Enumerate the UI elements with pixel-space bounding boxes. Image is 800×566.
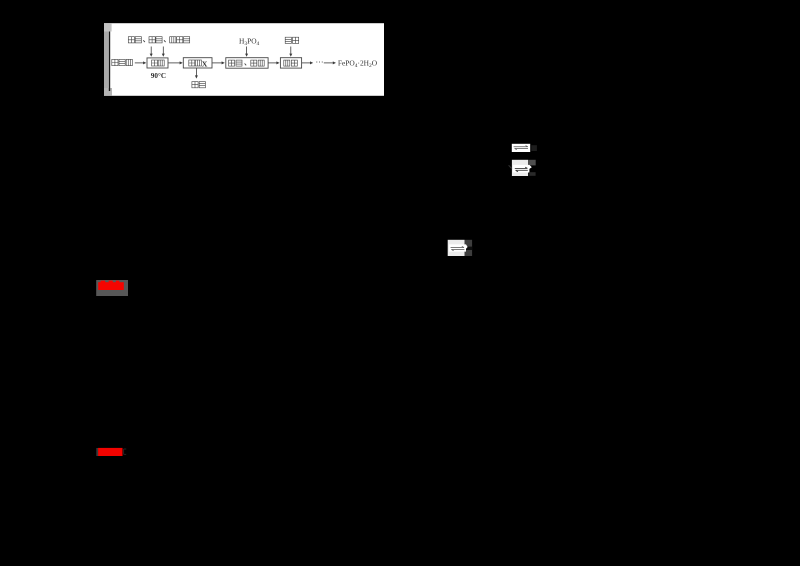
arrow reagents into 浸取 (left) [150, 47, 153, 57]
label 氨水 [285, 37, 299, 43]
chip 3 equilibrium arrows [451, 246, 465, 250]
label 磷铁渣 [112, 59, 133, 65]
svg-text:FePO4·2H2O: FePO4·2H2O [338, 59, 378, 70]
box 调铁、磷比 [226, 58, 268, 68]
red mark 1 gray background [96, 280, 128, 296]
black vertical rule [109, 32, 110, 92]
left gray bar bottom cap [104, 88, 112, 96]
arrow 浸取 to 操作X [168, 61, 183, 64]
arrow 氨水 into 制备 [289, 47, 292, 57]
label 操作 (of 操作X) [189, 60, 202, 66]
chip 2 gray patch right [528, 160, 536, 166]
arrow 磷铁渣 to 浸取 [135, 61, 147, 64]
svg-text:X: X [202, 60, 208, 69]
chip 2 equilibrium arrows [515, 167, 528, 172]
equation chip 2 gray background [512, 160, 528, 176]
red mark 2 red bar [98, 448, 122, 456]
svg-text:H3PO4: H3PO4 [239, 36, 260, 47]
chip 3 dark notch [466, 247, 473, 250]
flowchart panel background [104, 23, 384, 96]
svg-text:···: ··· [316, 58, 324, 67]
label 制备 [284, 60, 298, 66]
equation chip 3 gray background [448, 240, 465, 256]
left gray bar middle [104, 32, 109, 89]
arrow H3PO4 into 调铁磷比 [245, 47, 248, 57]
arrow 调铁磷比 to 制备 [268, 61, 279, 64]
arrow 操作X to 调铁磷比 [212, 61, 225, 64]
box 浸取 [147, 58, 168, 68]
box 制备 [280, 58, 301, 68]
arrow dots to FePO4 [324, 61, 336, 64]
chip 2 dark marks lower right [529, 172, 535, 176]
red mark 1 red text blob [98, 281, 124, 290]
left gray bar top cap [104, 23, 112, 31]
svg-text:90°C: 90°C [151, 72, 166, 80]
chip 1 equilibrium arrows [514, 146, 528, 150]
arrow 制备 to dots [302, 61, 313, 64]
arrow 操作X to 滤渣 [195, 68, 198, 78]
label 滤渣 [192, 82, 206, 88]
red mark 2 left sliver [96, 448, 98, 456]
label 浸取 [152, 60, 165, 66]
box 操作X [183, 58, 212, 68]
chip 3 dark gray block right [465, 240, 473, 256]
chip 3 white bubble [449, 244, 468, 251]
chip 2 faint streak left [509, 165, 512, 168]
equation chip 1 white box [512, 144, 530, 152]
label 硝酸、硫酸、活性炭 [128, 37, 189, 43]
red mark 2 dark bracket right [124, 449, 127, 454]
label 调铁、磷比 [229, 60, 265, 66]
chip 2 white bubble [513, 165, 532, 173]
arrow reagents into 浸取 (right) [162, 47, 165, 57]
chip 1 dark glyph remnant [531, 145, 537, 151]
